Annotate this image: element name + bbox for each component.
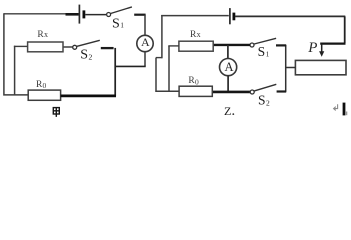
switch S1 blade (right) bbox=[254, 38, 276, 44]
svg-text:P: P bbox=[307, 40, 317, 56]
wire: bottom left to R0 bbox=[155, 90, 179, 92]
ammeter A1 body bbox=[137, 35, 153, 51]
rheostat P wiper arrow bbox=[321, 44, 323, 53]
battery B1 long plate bbox=[78, 5, 80, 24]
resistor Rx box bbox=[28, 42, 63, 52]
svg-text:S2: S2 bbox=[80, 48, 92, 63]
switch S2 fixed contact stub (right) bbox=[277, 90, 287, 92]
svg-text:Rx: Rx bbox=[37, 30, 48, 40]
svg-text:R0: R0 bbox=[36, 80, 47, 90]
wire: battery to switch S1 bbox=[85, 14, 106, 16]
switch S1 blade bbox=[111, 7, 132, 14]
wire: outer left vertical lower bbox=[155, 58, 157, 92]
wire: thick segment before battery bbox=[66, 13, 79, 16]
wire: inner left vertical (right) bbox=[168, 46, 170, 91]
switch S2 fixed contact stub bbox=[101, 47, 114, 49]
svg-text:Z: Z bbox=[224, 104, 231, 118]
wire: ammeter down to bottom branch bbox=[227, 76, 229, 93]
rheostat P box bbox=[295, 60, 346, 74]
switch S2 pivot circle bbox=[73, 45, 77, 49]
svg-text:S1: S1 bbox=[112, 16, 124, 31]
switch S1 fixed contact stub bbox=[134, 14, 145, 16]
wire: R0 right thick bbox=[61, 95, 116, 98]
paragraph mark artifact bbox=[334, 104, 338, 110]
switch S2 pivot circle (right) bbox=[250, 90, 254, 94]
wire: jog to wiper bbox=[320, 42, 345, 44]
switch S1 fixed contact stub (right) bbox=[276, 44, 286, 46]
wire: top wire left segment bbox=[4, 13, 66, 15]
svg-text:S1: S1 bbox=[258, 44, 270, 59]
wire: left jog bbox=[156, 57, 163, 59]
wire: left tap to Rx (right) bbox=[168, 45, 179, 47]
wire: inner left vertical bbox=[14, 46, 16, 96]
wire: ammeter down bbox=[144, 52, 146, 67]
battery B1 short plate bbox=[83, 10, 86, 18]
wire: S1 down to ammeter bbox=[144, 15, 146, 36]
svg-text:Rx: Rx bbox=[190, 30, 201, 40]
svg-text:R0: R0 bbox=[188, 76, 199, 86]
switch S1 pivot circle (right) bbox=[250, 43, 254, 47]
svg-text:S2: S2 bbox=[258, 92, 270, 107]
wire: bottom branch thick bbox=[212, 91, 250, 94]
wire: battery to right corner bbox=[235, 15, 345, 17]
wire: Rx to S2 bbox=[63, 46, 73, 48]
wire: top wire left segment bbox=[161, 15, 229, 17]
wire: switch junction vertical bbox=[285, 45, 287, 92]
ammeter A2 body bbox=[220, 59, 237, 76]
wire: outer left vertical bbox=[4, 13, 28, 95]
resistor Rx box (right) bbox=[179, 41, 213, 51]
wire: top branch thick bbox=[213, 44, 250, 46]
wire: right node vertical bbox=[114, 48, 116, 96]
battery B2 long plate bbox=[229, 8, 231, 24]
switch S2 blade bbox=[77, 40, 100, 46]
cursor bar artifact bbox=[343, 103, 346, 116]
resistor R0 box bbox=[28, 90, 60, 100]
label jia glyph bbox=[53, 108, 59, 117]
wire: horizontal to right node bbox=[115, 65, 146, 67]
wire: P box left stub bbox=[285, 67, 295, 69]
switch S2 blade (right) bbox=[254, 84, 276, 91]
svg-text:A: A bbox=[141, 35, 150, 49]
wire: left tap to Rx bbox=[14, 45, 28, 47]
wire: outer right vertical bbox=[344, 16, 346, 43]
svg-text:A: A bbox=[224, 60, 233, 74]
battery B2 short plate bbox=[232, 13, 235, 21]
resistor R0 box (right) bbox=[179, 86, 212, 96]
wire: junction down to ammeter bbox=[227, 45, 229, 59]
wire: outer left vertical upper bbox=[161, 15, 163, 58]
switch S1 pivot circle bbox=[107, 13, 111, 17]
